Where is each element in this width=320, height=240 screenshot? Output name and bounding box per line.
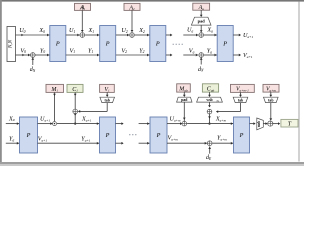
frame border bottom and shadow band	[0, 162, 304, 164]
wire tab2 to sum SD	[216, 103, 241, 113]
wire C1 down to sum SB	[74, 92, 77, 109]
wire Ya into P4	[204, 48, 217, 57]
wire X a+m into B4	[187, 115, 233, 125]
process block P3	[150, 26, 166, 62]
junction dot on X line stage a+m	[208, 123, 210, 125]
gain box Mab	[177, 84, 191, 93]
wire SB down to line junction	[74, 114, 77, 124]
process block B2	[100, 117, 116, 153]
wire line1 product to B2 with X a+1	[57, 115, 100, 125]
sum node S1 (U1 + A1)	[80, 33, 85, 38]
gain box M1	[46, 84, 64, 92]
test box T	[281, 119, 298, 127]
tab trapezoid 2	[233, 97, 248, 102]
svg-text:wsb: wsb	[206, 98, 212, 102]
wire U1 from P1 to sum S1	[66, 27, 80, 36]
disturbance dN arrow into Sva	[198, 57, 204, 73]
svg-text:P: P	[26, 132, 31, 139]
wire Xa into P4	[204, 27, 217, 37]
wire Y0 into P1	[35, 47, 50, 56]
wire sum SE to T box	[273, 122, 281, 125]
sum node SD (wsb + tab)	[207, 109, 212, 114]
process block B3	[150, 117, 167, 153]
ellipsis dots row 1	[173, 44, 183, 45]
wire Y a+m into B4	[213, 135, 234, 145]
wire Mab down to pad2	[183, 92, 186, 97]
attack box A2	[124, 3, 140, 11]
wire wsb down to sum SD	[208, 102, 211, 107]
process block P4	[217, 26, 233, 62]
wire M1 down to product node	[53, 92, 56, 121]
svg-text:P: P	[156, 132, 161, 139]
wire tab1 to sum SB	[78, 103, 107, 113]
product node (M1 x U)	[53, 122, 57, 126]
wire U2 from P2 to sum S2	[116, 27, 129, 36]
attack box A1	[75, 3, 91, 11]
svg-text:tab: tab	[238, 98, 243, 102]
sum node SC (U + pad(Mab))	[182, 121, 187, 126]
sum node S0 (V0 + dN)	[30, 53, 35, 58]
parameter box V a+m-1	[231, 84, 255, 92]
svg-text:P: P	[155, 41, 160, 48]
wire X1 into P2	[85, 27, 100, 36]
tab trapezoid 3	[264, 97, 279, 102]
process block P1	[50, 26, 66, 62]
wire pad2 down to sum SC	[183, 102, 186, 121]
stub wires into B3	[139, 122, 150, 144]
junction dot on X line	[74, 123, 76, 125]
attack box Aa	[193, 3, 210, 11]
wire U0 to P1 with label U0 and X0	[16, 27, 50, 36]
svg-text:P: P	[55, 41, 60, 48]
wire Cab down to wsb	[208, 92, 211, 97]
sum node SF (V + dE)	[207, 141, 212, 146]
msb trapezoid vertical	[257, 118, 264, 130]
stub wires out of B2	[116, 122, 124, 144]
svg-text:N,N: N,N	[8, 39, 14, 49]
frame border left	[0, 0, 2, 162]
wire U a+1 from B1 to product	[38, 115, 53, 125]
parameter box V1	[100, 84, 115, 92]
wire X2 into P3	[135, 27, 150, 36]
wire pad down to sum Sa	[200, 25, 203, 32]
process block B4	[234, 117, 250, 153]
svg-text:msb: msb	[257, 121, 261, 127]
frame border right	[298, 2, 299, 162]
wire V2 Y2 from P2 to P3	[116, 47, 150, 56]
bias box C1	[67, 84, 83, 92]
bias box Cab	[202, 84, 218, 93]
wire V a+m from B3 to sum SF	[167, 135, 207, 145]
wire Xa into B1	[6, 115, 20, 125]
wsb trapezoid	[197, 97, 223, 103]
ellipsis dots row 2	[129, 134, 136, 135]
sum node SB (C1 + tab(V1))	[73, 109, 78, 114]
svg-text:P: P	[239, 132, 244, 139]
wire B4 to msb trapezoid	[250, 122, 256, 125]
wire tab3 down to sum SE	[269, 103, 272, 121]
wire V a+m-1 into tab2	[239, 92, 242, 97]
wire V1 down into tab1	[106, 92, 109, 97]
wire V1 Y1 from P1 to P2	[66, 47, 100, 56]
tab trapezoid 1	[100, 97, 115, 102]
wire Ua to sum Sa	[183, 27, 198, 37]
sum node Sa (Ua + pad(Aa))	[199, 33, 204, 38]
frame border top	[0, 0, 304, 2]
wire V0 from generator to sum	[16, 47, 31, 56]
svg-text:P: P	[105, 41, 110, 48]
process block P2	[100, 26, 116, 62]
pad trapezoid row1	[191, 17, 211, 25]
wire A2 down to sum S2	[131, 10, 134, 32]
sum node SE	[268, 121, 273, 126]
wire SD down to junction	[208, 114, 211, 124]
wire msb to sum SE	[263, 122, 267, 125]
sum node S2 (U2 + A2)	[130, 33, 135, 38]
svg-text:pad: pad	[181, 98, 188, 102]
svg-text:tab: tab	[105, 98, 110, 102]
svg-text:pad: pad	[198, 19, 206, 24]
wire A1 down to sum S1	[81, 10, 84, 32]
disturbance dE arrow into SF	[206, 146, 212, 161]
wire Aa down to pad	[200, 10, 203, 17]
parameter box V a+m top right	[263, 84, 279, 92]
sum node Sva (Va + dN)	[199, 53, 204, 58]
wire V a+m into tab3	[269, 92, 272, 97]
wire U a+m from B3 to sum SC	[167, 115, 182, 125]
output wire V a+1	[233, 52, 253, 59]
svg-text:P: P	[105, 132, 110, 139]
white page background	[0, 0, 304, 166]
input generator block (rotated label)	[7, 27, 16, 62]
stub wires out of P3	[166, 34, 172, 57]
output wire U a+1	[233, 32, 253, 39]
svg-text:|X: |X	[217, 100, 220, 103]
pad trapezoid row2	[177, 97, 192, 102]
wire Va to sum Sva	[183, 48, 198, 57]
svg-text:P: P	[222, 41, 227, 48]
wire line2 B1 to B2 with V a+1 Y a+1	[38, 136, 100, 145]
disturbance dN arrow into S0	[30, 57, 36, 73]
svg-text:tab: tab	[268, 98, 273, 102]
process block B1	[20, 117, 38, 153]
wire Ya into B1	[6, 136, 20, 145]
